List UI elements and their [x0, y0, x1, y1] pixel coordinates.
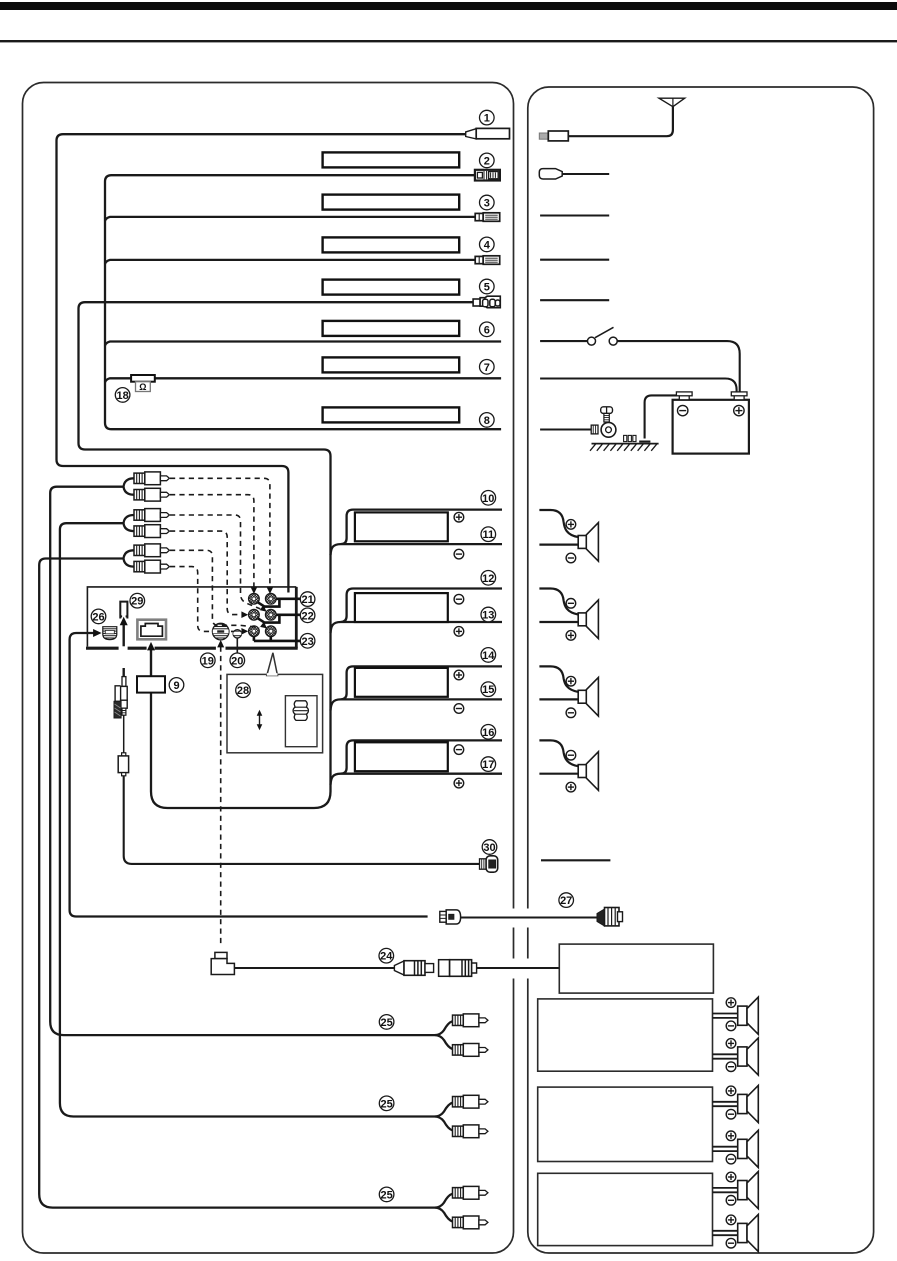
speaker1 plus: [566, 520, 576, 530]
wire from 26 down to item 27 lead: [70, 633, 428, 917]
circled 8: [480, 413, 495, 428]
RCA jack 23L: [249, 626, 260, 637]
battery ground wire: [639, 395, 677, 441]
dbl arrow up: [257, 710, 263, 716]
sign plus 10: [454, 512, 464, 522]
speaker2 plus: [566, 631, 576, 641]
svg-text:30: 30: [483, 842, 495, 854]
sign minus 12: [454, 594, 464, 604]
speaker1 minus: [566, 553, 576, 563]
fuse icon in 28: [293, 701, 308, 721]
arrow from box 9 to jack: [150, 648, 152, 676]
item 25-2 RCA plug bottom: [453, 1125, 488, 1138]
lead stub (item 30 mate): [541, 859, 610, 861]
circled 11: [481, 527, 496, 542]
jack row 23 routing line: [254, 637, 301, 641]
mounting screw: [601, 407, 613, 422]
circled 25 (2): [379, 1096, 394, 1111]
item 25-3 RCA plug top: [453, 1186, 488, 1199]
wire 1 (antenna lead): [57, 134, 466, 592]
right panel frame: [528, 87, 874, 1253]
amp1 speaker B minus: [726, 1062, 736, 1072]
item 25-2 RCA plug top: [453, 1095, 488, 1108]
amp1 speaker B: [713, 1038, 759, 1075]
bullet lead (item 2 mate): [539, 169, 609, 179]
svg-text:25: 25: [380, 1189, 392, 1201]
antenna cable arrow into 29: [122, 623, 124, 646]
svg-text:26: 26: [92, 611, 104, 623]
svg-text:15: 15: [482, 684, 494, 696]
circled 9: [169, 678, 184, 693]
dbl arrow down: [257, 724, 263, 730]
svg-text:24: 24: [380, 951, 393, 963]
Ai-NET jack icon: [137, 620, 166, 640]
arrowhead into 29: [120, 617, 128, 626]
item 24 cable: [234, 967, 394, 969]
svg-text:Ω: Ω: [139, 382, 146, 392]
label box 8: [323, 407, 460, 422]
header rule: [0, 40, 897, 42]
svg-text:21: 21: [301, 594, 313, 606]
speaker front left: [539, 589, 598, 639]
RCA plug 1: [134, 472, 169, 485]
lead stub (item 4 mate): [540, 259, 609, 261]
svg-text:13: 13: [482, 610, 494, 622]
ignition switch lead (item 6 mate): [540, 327, 740, 392]
item 25 split cable 1: [435, 1021, 453, 1049]
item 24 female connector: [439, 960, 477, 977]
circled 19: [201, 653, 216, 668]
speaker lead pair 14/15 wires: [331, 666, 503, 710]
arrowhead into jack: [147, 642, 155, 651]
speaker lead pair 10/11 wires: [331, 510, 503, 555]
circled 25 (3): [379, 1187, 394, 1202]
label box 5: [323, 280, 460, 295]
arrow up into socket 19: [217, 640, 224, 648]
sign minus 16: [454, 745, 464, 755]
item 25-3 RCA plug bottom: [453, 1216, 488, 1229]
ground lead with ring terminal (item 8 mate): [540, 422, 616, 437]
circled 30: [482, 840, 497, 855]
battery plus sign: [734, 405, 744, 415]
svg-text:10: 10: [482, 493, 494, 505]
svg-text:19: 19: [202, 655, 214, 667]
svg-text:22: 22: [301, 610, 313, 622]
amp2 speaker A plus: [726, 1086, 736, 1096]
speaker rear left: [539, 740, 598, 790]
amp1 speaker A minus: [726, 1021, 736, 1031]
label box 7: [323, 357, 460, 372]
RCA pair 1 cable: [50, 478, 434, 1035]
arrowhead into 26: [93, 629, 102, 637]
circled 24: [379, 948, 394, 963]
circled 6: [480, 322, 495, 337]
dashed route plug6 to jack 23L: [170, 567, 244, 632]
speaker lead pair 16/17 wires: [331, 740, 503, 784]
double arrow in box 28: [259, 714, 261, 726]
item 27 small connector (left end): [440, 910, 461, 924]
jack row 22 routing line: [258, 615, 301, 623]
item 25 split cable 2: [435, 1103, 453, 1131]
RCA jack 21R: [265, 593, 276, 604]
amp3 speaker A minus: [726, 1196, 736, 1206]
circled 20: [230, 653, 245, 668]
circled 12: [481, 571, 496, 586]
circled 25 (1): [379, 1015, 394, 1030]
connector plug 3: [475, 213, 500, 222]
wire 3: [105, 217, 475, 221]
svg-text:2: 2: [484, 155, 490, 167]
item 25-1 RCA plug bottom: [453, 1044, 488, 1057]
jack 20: [233, 630, 241, 654]
svg-text:23: 23: [301, 636, 313, 648]
connector 30: [480, 856, 498, 872]
arrow into jack 22R: [260, 605, 267, 612]
speaker rear right: [539, 666, 598, 716]
svg-text:1: 1: [484, 113, 490, 125]
label box 16/17: [355, 742, 448, 771]
RCA jack 23R: [265, 626, 276, 637]
arrow into jack 22L: [241, 611, 248, 618]
label box 3: [323, 195, 460, 210]
arrow into jack 21L: [251, 587, 258, 594]
antenna extension cable + ferrite: [118, 715, 128, 776]
svg-text:4: 4: [484, 239, 491, 251]
amp2 speaker B minus: [726, 1154, 736, 1164]
item 24 male connector: [394, 961, 433, 976]
fuse icon 18: [136, 382, 151, 393]
battery: [673, 392, 749, 454]
speaker2 minus: [566, 599, 576, 609]
socket 19 (DIN): [212, 623, 229, 640]
connector plug 1 (antenna plug): [466, 128, 510, 139]
item 24 cable into amp box: [477, 967, 560, 969]
svg-text:14: 14: [482, 650, 495, 662]
antenna receptacle plug: [539, 131, 568, 141]
circled 10: [481, 491, 496, 506]
wire to item 30: [124, 776, 480, 864]
RCA plug 4: [134, 525, 169, 538]
box 28 callout: [227, 653, 323, 753]
connector plug 2: [475, 170, 500, 181]
svg-text:6: 6: [484, 324, 490, 336]
sign plus 17: [454, 778, 464, 788]
wire 7: [105, 378, 501, 382]
RCA plug 2: [134, 488, 169, 501]
label box 4: [323, 237, 460, 252]
RCA plug 3: [134, 509, 169, 522]
connector plug 4: [475, 256, 500, 264]
speaker4 minus: [566, 750, 576, 760]
circled 27: [559, 893, 574, 908]
item 24 L-plug: [211, 952, 234, 974]
lead stub (item 3 mate): [540, 214, 609, 216]
amp2 speaker B plus: [726, 1131, 736, 1141]
circled 3: [480, 195, 495, 210]
amp1 speaker A plus: [726, 998, 736, 1008]
wire 6: [105, 342, 501, 346]
amplifier box 3: [538, 1173, 713, 1245]
svg-text:16: 16: [482, 727, 494, 739]
processor box (item 24 destination): [559, 944, 713, 993]
circled 18: [115, 388, 130, 403]
dashed route plug5 to jack 23R: [170, 550, 260, 627]
speaker3 minus: [566, 708, 576, 718]
svg-text:5: 5: [484, 282, 490, 294]
label box 12/13: [355, 593, 448, 622]
top black bar: [0, 2, 897, 10]
dashed route item 19 plug: [220, 647, 222, 948]
amp3 speaker B: [713, 1214, 759, 1251]
amp1 speaker B plus: [726, 1039, 736, 1049]
fuse holder 18: [131, 375, 155, 382]
speaker lead pair 12/13 wires: [331, 589, 503, 634]
speaker front right: [539, 510, 598, 561]
JASO antenna plug assembly: [114, 668, 127, 718]
item 26 DIN connector icon: [103, 627, 117, 640]
svg-text:9: 9: [173, 680, 179, 692]
svg-text:28: 28: [237, 685, 249, 697]
speaker3 plus: [566, 676, 576, 686]
circled 7: [480, 360, 495, 375]
dashed route plug3 to jack 22R: [170, 515, 260, 609]
dashed route plug2 to jack 21L: [170, 495, 254, 588]
circled 1: [480, 110, 495, 125]
svg-text:20: 20: [231, 655, 243, 667]
svg-text:18: 18: [116, 390, 128, 402]
wire 5: long bundle to box 9: [79, 302, 474, 808]
RCA jack 22L: [249, 609, 260, 620]
label box 9: [137, 676, 165, 692]
item 27 cable to right panel: [461, 916, 597, 918]
svg-text:3: 3: [484, 198, 490, 210]
lead stub (item 5 mate): [540, 299, 609, 301]
circled 2: [480, 153, 495, 168]
svg-text:8: 8: [484, 415, 490, 427]
label box 6: [323, 321, 460, 336]
RCA plug 6: [134, 560, 169, 573]
svg-text:25: 25: [380, 1098, 392, 1110]
sign plus 14: [454, 670, 464, 680]
circled 28: [236, 683, 251, 698]
battery lead (item 7 mate): [540, 379, 737, 393]
item 25 split cable 3: [435, 1194, 453, 1222]
svg-text:17: 17: [482, 759, 494, 771]
arrow into jack 21R: [267, 587, 274, 594]
sign minus 11: [454, 549, 464, 559]
arrow into jack 23R: [260, 622, 267, 629]
item 27 connector (right): [597, 908, 623, 927]
svg-text:25: 25: [380, 1017, 392, 1029]
RCA jack 22R: [265, 609, 276, 620]
circled 22: [300, 608, 315, 623]
circled 13: [481, 607, 496, 622]
amp3 speaker B plus: [726, 1215, 736, 1225]
svg-text:7: 7: [484, 362, 490, 374]
amp3 speaker B minus: [726, 1238, 736, 1248]
circled 15: [481, 682, 496, 697]
amplifier box 2: [538, 1087, 713, 1161]
label box 10/11: [355, 512, 448, 541]
RCA pair 2 cable: [60, 515, 435, 1117]
dashed route plug4 to jack 22L: [170, 531, 243, 615]
RCA plug 5: [134, 544, 169, 557]
label box 2: [323, 152, 460, 167]
label box 14/15: [355, 668, 448, 697]
sign plus 13: [454, 627, 464, 637]
svg-text:12: 12: [482, 573, 494, 585]
amplifier box 1: [538, 999, 713, 1071]
amp3 speaker A: [713, 1172, 759, 1209]
circled 21: [300, 592, 315, 607]
panel border gaps for crossing wires: [510, 909, 531, 979]
circled 17: [481, 757, 496, 772]
RCA pair 3 cable: [39, 550, 434, 1207]
item 29 socket outline: [120, 602, 127, 619]
left panel frame: [23, 83, 514, 1254]
circled 23: [300, 634, 315, 649]
amp2 speaker B: [713, 1130, 759, 1167]
sign minus 15: [454, 704, 464, 714]
amp2 speaker A: [713, 1085, 759, 1122]
circled 4: [480, 237, 495, 252]
circled 26: [91, 609, 106, 624]
inner box in 28: [285, 696, 317, 747]
wire 2 with merged bus down to wire 8: [105, 175, 501, 429]
antenna symbol: [568, 98, 684, 136]
RCA jack 21L: [249, 593, 260, 604]
clamp icon on ground: [624, 435, 636, 441]
circled 5: [480, 279, 495, 294]
circled 29: [130, 593, 145, 608]
svg-text:29: 29: [131, 596, 143, 608]
svg-text:11: 11: [482, 529, 494, 541]
speaker4 plus: [566, 782, 576, 792]
dashed route plug1 to jack 21R: [170, 478, 270, 587]
chassis ground hatch: [590, 444, 659, 451]
jack row 21 routing line: [258, 599, 301, 607]
amp3 speaker A plus: [726, 1172, 736, 1182]
head unit rear panel box: [86, 587, 298, 648]
svg-text:27: 27: [560, 895, 572, 907]
battery minus sign: [678, 405, 688, 415]
amp2 speaker A minus: [726, 1109, 736, 1119]
wire 4: [105, 260, 476, 264]
circled 14: [481, 648, 496, 663]
item 25-1 RCA plug top: [453, 1014, 488, 1027]
amp1 speaker A: [713, 997, 759, 1034]
circled 16: [481, 725, 496, 740]
connector plug 5: [473, 296, 500, 308]
arrow into jack 23L: [241, 628, 248, 635]
